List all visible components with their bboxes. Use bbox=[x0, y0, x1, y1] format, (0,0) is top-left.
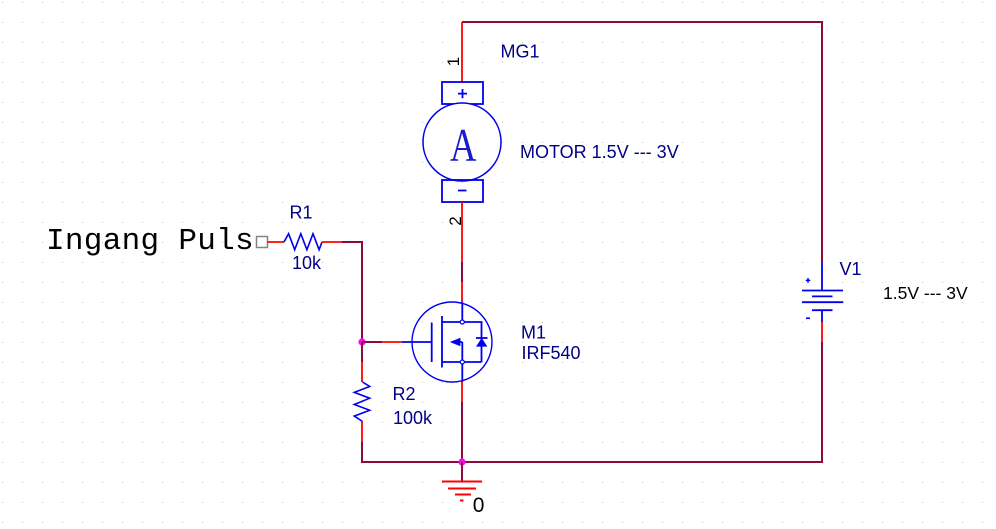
node junction gate (magenta) bbox=[358, 338, 365, 345]
label R1 bbox=[290, 203, 313, 223]
svg-text:1: 1 bbox=[444, 57, 463, 66]
wire motor feed vertical bbox=[461, 22, 463, 82]
node junction ground (magenta) bbox=[458, 458, 465, 465]
wire gate node to R2 bbox=[361, 342, 363, 382]
label R2 bbox=[393, 384, 416, 404]
wire motor to mosfet drain bbox=[461, 202, 463, 302]
svg-text:M1: M1 bbox=[521, 323, 546, 343]
wire gate horizontal bbox=[362, 341, 402, 343]
battery V1 bbox=[802, 262, 843, 322]
wire left vertical down to gate node bbox=[361, 241, 363, 342]
svg-text:R2: R2 bbox=[393, 384, 416, 404]
svg-text:IRF540: IRF540 bbox=[522, 343, 581, 363]
resistor R1 bbox=[284, 234, 322, 250]
label 100k bbox=[393, 408, 433, 428]
wire right vertical upper bbox=[821, 21, 823, 262]
label 10k bbox=[292, 253, 322, 273]
svg-text:A: A bbox=[450, 119, 477, 171]
wire mosfet source down bbox=[461, 382, 463, 462]
motor MG1 symbol bbox=[423, 82, 501, 202]
svg-text:10k: 10k bbox=[292, 253, 322, 273]
svg-text:1.5V --- 3V: 1.5V --- 3V bbox=[883, 283, 968, 303]
wire R1 to corner bbox=[322, 241, 362, 243]
wire R2 to bottom bbox=[361, 422, 363, 464]
label V1 bbox=[840, 259, 862, 279]
label IRF540 bbox=[522, 343, 581, 363]
svg-text:R1: R1 bbox=[290, 203, 313, 223]
svg-text:MOTOR 1.5V --- 3V: MOTOR 1.5V --- 3V bbox=[520, 142, 679, 162]
wire top horizontal bbox=[462, 21, 822, 23]
svg-text:V1: V1 bbox=[840, 259, 862, 279]
label 0 bbox=[473, 494, 485, 517]
label Ingang Puls bbox=[46, 224, 254, 259]
svg-text:Ingang Puls: Ingang Puls bbox=[46, 224, 254, 259]
label 1.5V --- 3V bbox=[883, 283, 968, 303]
wire input to R1 bbox=[268, 241, 285, 243]
resistor R2 bbox=[354, 382, 369, 422]
wire bottom horizontal bbox=[362, 461, 822, 463]
label MG1 bbox=[501, 42, 540, 62]
wire ground stub bbox=[461, 462, 463, 482]
svg-text:100k: 100k bbox=[393, 408, 433, 428]
input port terminal bbox=[257, 237, 268, 248]
mosfet M1 bbox=[402, 302, 492, 382]
svg-text:0: 0 bbox=[473, 494, 485, 517]
pin 2 bbox=[446, 216, 465, 225]
wire battery to bottom bbox=[821, 322, 823, 463]
label M1 bbox=[521, 323, 546, 343]
label MOTOR 1.5V --- 3V bbox=[520, 142, 679, 162]
svg-text:MG1: MG1 bbox=[501, 42, 540, 62]
ground symbol 0 bbox=[442, 482, 482, 501]
pin 1 bbox=[444, 57, 463, 66]
